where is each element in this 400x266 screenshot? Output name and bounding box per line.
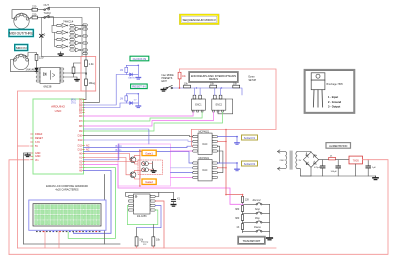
svg-text:6N138: 6N138 <box>44 85 52 89</box>
EEPROM U6 24LC256 <box>134 194 151 214</box>
opto pair 1 <box>142 162 149 166</box>
rail resistor RB 10k <box>210 85 217 88</box>
box ENCODEURS <box>189 72 238 82</box>
reset diode to node <box>133 102 139 104</box>
red 5V stub to Arduino 5V pin <box>18 145 30 147</box>
7805 ground pin <box>355 164 357 176</box>
switch SW1 OUT <box>44 7 50 10</box>
red Vin wire <box>9 160 29 255</box>
LCD character cells <box>35 205 100 225</box>
resistor R2 220 <box>32 16 38 19</box>
transistor Q1 <box>130 157 136 163</box>
resistor RT2 680 <box>241 206 243 212</box>
svg-text:470µF: 470µF <box>314 167 321 169</box>
clock wires <box>126 65 138 77</box>
regulator U7 7805 <box>349 156 363 164</box>
decoupling cap C7 <box>173 192 175 199</box>
svg-text:220: 220 <box>32 12 37 16</box>
svg-text:THRU: THRU <box>44 11 51 15</box>
ENC2 bottom pins <box>213 110 224 112</box>
blue wire into gate box <box>84 129 149 144</box>
ground opto <box>75 80 79 82</box>
reset input node <box>138 93 140 95</box>
wire RX stub to D0 <box>84 99 87 101</box>
svg-text:BAT85: BAT85 <box>128 77 135 80</box>
svg-text:220: 220 <box>39 56 44 60</box>
rail resistor RC 10k <box>233 85 240 88</box>
svg-text:GND: GND <box>35 155 41 158</box>
label ALIMENTATION <box>326 143 351 149</box>
svg-text:220: 220 <box>32 5 37 9</box>
ground wire from Arduino GND pins <box>24 153 31 244</box>
diode D1 1N4148 <box>35 68 38 71</box>
transformer primary coil <box>286 152 287 169</box>
svg-text:IOREF: IOREF <box>35 133 43 136</box>
lavender wire to DAC2 <box>171 167 193 169</box>
svg-text:ALIMENTATION: ALIMENTATION <box>329 145 347 148</box>
svg-text:680: 680 <box>235 208 240 211</box>
wire SW2 to 74HC14 input <box>49 17 56 26</box>
LCD module LCD1 <box>29 200 106 230</box>
clock input jack node <box>138 65 140 67</box>
gray rail extension <box>105 243 121 245</box>
wire reset to D3 <box>84 103 127 108</box>
red wire A1 to Q2 <box>84 158 132 175</box>
jack out2 <box>236 162 238 164</box>
IC U2 74HC14 body <box>42 18 83 57</box>
svg-text:ENC2: ENC2 <box>216 104 223 107</box>
svg-text:Pull-Up: Pull-Up <box>141 241 149 243</box>
switch Stop <box>256 212 262 214</box>
red feed to ladder <box>226 195 243 197</box>
wire R4 bottom <box>73 74 75 78</box>
svg-text:Brochage 7805: Brochage 7805 <box>327 83 344 86</box>
svg-text:SortieCV1: SortieCV1 <box>244 137 256 140</box>
svg-text:74HC14: 74HC14 <box>63 19 74 23</box>
TO-220 legend box <box>304 70 354 113</box>
ground under 74HC14 <box>58 52 63 56</box>
Arduino left pin labels <box>35 133 44 162</box>
svg-text:SEQUENCEUR MIDI/CV: SEQUENCEUR MIDI/CV <box>183 18 216 22</box>
label MIDI IN <box>15 45 28 51</box>
label MIDI OUT/THRU <box>9 30 34 37</box>
lavender wire D11 to DAC <box>84 140 193 141</box>
resistor RT3 680 <box>241 215 243 221</box>
svg-text:680: 680 <box>235 217 240 220</box>
eeprom right top wire <box>155 192 159 196</box>
svg-text:Inter MODE: Inter MODE <box>162 74 175 77</box>
label CLOCK IN <box>130 56 149 61</box>
5V red loop around RX pullups <box>81 57 96 92</box>
magenta gate box <box>118 144 171 186</box>
svg-text:RESET: RESET <box>35 137 44 140</box>
TO-220 package drawing <box>311 73 325 90</box>
wire R1 to SW1 <box>38 9 45 11</box>
red DAC1 left supply <box>191 130 192 147</box>
svg-text:ARDUINO: ARDUINO <box>51 105 66 109</box>
red wire A0 to Q1 <box>84 154 132 160</box>
wire DIN2 loop to bottom <box>11 60 37 72</box>
red vertical gate supply <box>139 150 141 186</box>
ground symbol GND arduino <box>25 153 30 157</box>
capacitor C1 470uF <box>322 160 324 166</box>
svg-text:I2C: I2C <box>143 244 147 246</box>
red psu output wire <box>9 160 388 255</box>
ground mode switch <box>161 88 166 91</box>
switch SW2 THRU <box>44 15 50 18</box>
text Ecran SETUP <box>249 76 257 82</box>
wire 74HC14 interstage <box>52 26 57 33</box>
DAC daisy chain wires <box>218 146 220 163</box>
red DAC vcc stubs <box>218 140 227 142</box>
svg-text:SETUP: SETUP <box>249 80 257 82</box>
gray wire D10 to DAC <box>84 136 193 137</box>
svg-text:Play: Play <box>255 217 260 220</box>
capacitor C3 10uF <box>367 160 369 166</box>
transformer secondary coil <box>296 152 297 169</box>
dashed opto box <box>138 160 162 175</box>
pullup resistor 10k red <box>178 72 181 79</box>
blue DAC2 out to jack <box>218 162 238 164</box>
ENC1 top resistors <box>193 95 196 99</box>
clock diode BAT85 <box>130 73 133 76</box>
bridge bottom to rail <box>310 167 312 176</box>
wire gate1 output to RX node <box>74 25 86 27</box>
red LCD supply wires <box>44 232 46 249</box>
svg-text:1Meg: 1Meg <box>89 81 96 85</box>
svg-text:TRANSPORT: TRANSPORT <box>243 239 261 243</box>
svg-text:SortieCV2: SortieCV2 <box>244 163 256 166</box>
eeprom top ground rail <box>126 192 174 196</box>
wire secondary to bridge <box>297 151 311 154</box>
wire opto out to RX line <box>64 72 86 74</box>
wire diode to DIN loop <box>36 70 38 72</box>
reset pulldown resistor 1M <box>125 96 128 101</box>
label SortieCV2 <box>242 161 258 166</box>
ground clock blue <box>136 78 141 80</box>
svg-text:Gate1: Gate1 <box>145 151 153 155</box>
svg-text:MIDI IN: MIDI IN <box>16 46 26 50</box>
wire DIN1 pin to R1 <box>12 10 32 19</box>
svg-text:Ecran: Ecran <box>249 76 256 79</box>
DIN connector J2 MIDI IN <box>13 54 28 70</box>
Arduino left pin stubs <box>31 134 34 160</box>
encoder common wire <box>218 99 233 114</box>
svg-text:24LC256: 24LC256 <box>137 215 147 218</box>
svg-text:OUT: OUT <box>44 3 50 7</box>
encoder ENC2 <box>212 99 226 110</box>
wire R4 top <box>74 63 82 67</box>
wire 10k top <box>179 69 181 72</box>
svg-text:MENUS: MENUS <box>209 78 218 81</box>
blue wire A2 up to gate box <box>84 144 119 160</box>
reset diode BAT85 <box>130 102 133 105</box>
svg-text:3 - Output: 3 - Output <box>328 105 340 109</box>
label TRANSPORT <box>238 237 265 245</box>
opto pair 2 <box>142 168 149 172</box>
red bottom rail 2 <box>18 247 277 249</box>
resistor R5 1.3k <box>85 60 88 67</box>
svg-text:100µF: 100µF <box>331 171 338 173</box>
svg-text:1µF: 1µF <box>372 167 376 169</box>
svg-text:1M: 1M <box>120 69 123 72</box>
label Gate2 <box>142 179 156 184</box>
ENC1 bottom pins <box>192 110 203 112</box>
red 5V rail top <box>180 69 277 130</box>
green I2C SCL path <box>127 206 157 225</box>
svg-text:DAC: DAC <box>202 143 207 146</box>
pullup resistor RP2 10k <box>152 237 155 246</box>
svg-text:PRESETS: PRESETS <box>162 78 173 80</box>
resistor Rin 220 vertical <box>35 54 38 60</box>
svg-text:RESET IN: RESET IN <box>132 85 145 89</box>
LCD pin marks <box>36 231 100 232</box>
ENC2 top resistors <box>214 95 217 99</box>
blue encoder rail <box>173 88 242 95</box>
opto output cap wire <box>152 162 154 170</box>
Arduino UNO U1 board outline <box>33 99 84 174</box>
psu bottom rail <box>300 175 375 177</box>
svg-text:EDIT: EDIT <box>162 81 168 83</box>
74HC14 gates column B <box>70 24 88 55</box>
rail resistor RA 10k <box>184 85 191 88</box>
blue SCL wire to DAC2 <box>84 152 193 164</box>
bridge output wire <box>319 159 329 161</box>
svg-text:1M: 1M <box>120 97 123 100</box>
wire DIN2 pin to Rin top <box>25 53 37 57</box>
wire 74HC14 interstage2 <box>55 33 57 40</box>
bridge rectifier BR1 <box>303 152 318 167</box>
wire R2 to SW2 <box>38 17 45 19</box>
encoder ENC1 <box>191 99 205 110</box>
red wire A2 to opto leds <box>84 161 139 163</box>
resistor R6 1Meg <box>85 79 88 86</box>
red collector wires <box>135 155 140 157</box>
magenta wire A3 to transport <box>84 165 242 205</box>
text Inter MODE <box>162 74 175 83</box>
svg-text:UNO: UNO <box>55 109 62 113</box>
resistor R1 220 <box>32 8 38 11</box>
jack out1 <box>236 136 238 138</box>
label Gate1 <box>142 150 156 155</box>
svg-text:1K: 1K <box>236 226 239 229</box>
clock diode to node <box>133 74 139 76</box>
capacitor C2 100nF <box>337 160 339 166</box>
wire 10k bottom to switch rail <box>179 79 181 88</box>
svg-text:D11: D11 <box>78 139 83 142</box>
LCD bezel <box>33 204 101 226</box>
svg-text:1.3k: 1.3k <box>89 62 95 66</box>
switch MODE <box>164 87 167 89</box>
transport common wire <box>262 204 270 238</box>
svg-text:1 - Input: 1 - Input <box>328 95 338 99</box>
red 5V wire left run to Vin column <box>18 91 96 248</box>
red led stubs <box>149 163 153 165</box>
svg-text:4x20 CARACTERES: 4x20 CARACTERES <box>55 189 79 192</box>
svg-text:Record: Record <box>253 199 261 202</box>
svg-text:3.3V: 3.3V <box>35 141 40 144</box>
svg-text:Stop: Stop <box>255 208 261 211</box>
RX vertical wire <box>85 26 87 100</box>
red vertical to transport <box>225 130 227 195</box>
wire ENC1 B green to D <box>84 112 203 121</box>
pullup resistor RP1 10k <box>135 237 138 246</box>
magenta wire to DAC1 LDAC <box>171 150 193 152</box>
svg-text:D13: D13 <box>78 149 83 152</box>
ground transport <box>267 238 273 240</box>
74HC14 gates column A <box>57 24 75 49</box>
clock pulldown resistor 1M <box>125 67 128 72</box>
label SEQUENCEUR <box>179 14 219 25</box>
DIN connector J1 MIDI OUT/THRU <box>14 13 29 29</box>
reset wires <box>126 94 138 106</box>
label RESET IN <box>131 84 148 89</box>
svg-text:12K: 12K <box>245 198 250 201</box>
wire diode to 7805 <box>336 159 350 161</box>
svg-text:2 - Ground: 2 - Ground <box>328 100 342 104</box>
pullup stubs <box>136 228 138 237</box>
ground cap <box>171 205 176 207</box>
transformer TR1 arrows <box>278 150 286 170</box>
wire SW1 to TX rail <box>49 8 99 103</box>
svg-text:D10: D10 <box>78 135 83 138</box>
wire clock to D2 <box>84 75 127 106</box>
resistor RT4 1k <box>241 224 243 230</box>
svg-text:[TX]: [TX] <box>71 102 76 105</box>
ground reset blue <box>136 106 141 108</box>
svg-text:230V: 230V <box>280 160 286 162</box>
LED on 74HC14 left edge <box>40 34 45 38</box>
blue wire to DAC2 <box>171 172 193 174</box>
wire ENC2 A magenta to D <box>84 112 214 126</box>
svg-text:7805: 7805 <box>353 158 360 162</box>
wire ENC1 A magenta to D <box>84 112 194 116</box>
svg-text:MIDI OUT/THRU: MIDI OUT/THRU <box>9 32 34 36</box>
blue SDA wire to DAC <box>84 146 193 147</box>
svg-text:DAC: DAC <box>202 169 207 172</box>
ladder junction wires <box>243 202 257 232</box>
red eeprom supply <box>155 201 164 248</box>
ground in opto box <box>151 169 156 172</box>
diode D2 1N4007 <box>329 157 336 160</box>
resistor RT1 12k <box>241 197 243 203</box>
LCD section gray enclosure <box>24 175 105 245</box>
wire DIN1 pin to R2 <box>28 18 32 19</box>
blue I2C SDA path <box>137 206 162 228</box>
magenta wire to DAC2 LDAC <box>171 176 193 178</box>
transistor Q2 <box>130 172 136 178</box>
switch Record <box>256 203 262 205</box>
optocoupler U3 6N138 <box>40 68 60 84</box>
svg-text:Pause: Pause <box>254 226 261 229</box>
label SortieCV1 <box>242 135 258 140</box>
svg-text:D12: D12 <box>78 145 83 148</box>
wire Rin to diode <box>36 60 38 68</box>
wire ENC2 B green to D <box>84 112 223 131</box>
svg-text:CLOCK IN: CLOCK IN <box>133 57 147 61</box>
blue DAC1 out to jack <box>218 136 238 138</box>
transformer core <box>290 151 293 170</box>
pullup resistor R4 <box>72 67 75 74</box>
switch Play <box>256 221 262 223</box>
switch Pause <box>256 230 262 232</box>
green wire A4 to LCD E <box>68 168 115 239</box>
ground psu <box>373 176 378 180</box>
svg-text:Gate2: Gate2 <box>145 180 153 184</box>
svg-text:1N4148: 1N4148 <box>26 68 36 72</box>
blue wire A5 to LCD <box>74 171 112 234</box>
wire opto pin to ground <box>64 77 77 80</box>
svg-text:5V: 5V <box>35 145 38 148</box>
Arduino right pin labels and stubs <box>78 99 83 173</box>
svg-text:ENC1: ENC1 <box>195 104 202 107</box>
